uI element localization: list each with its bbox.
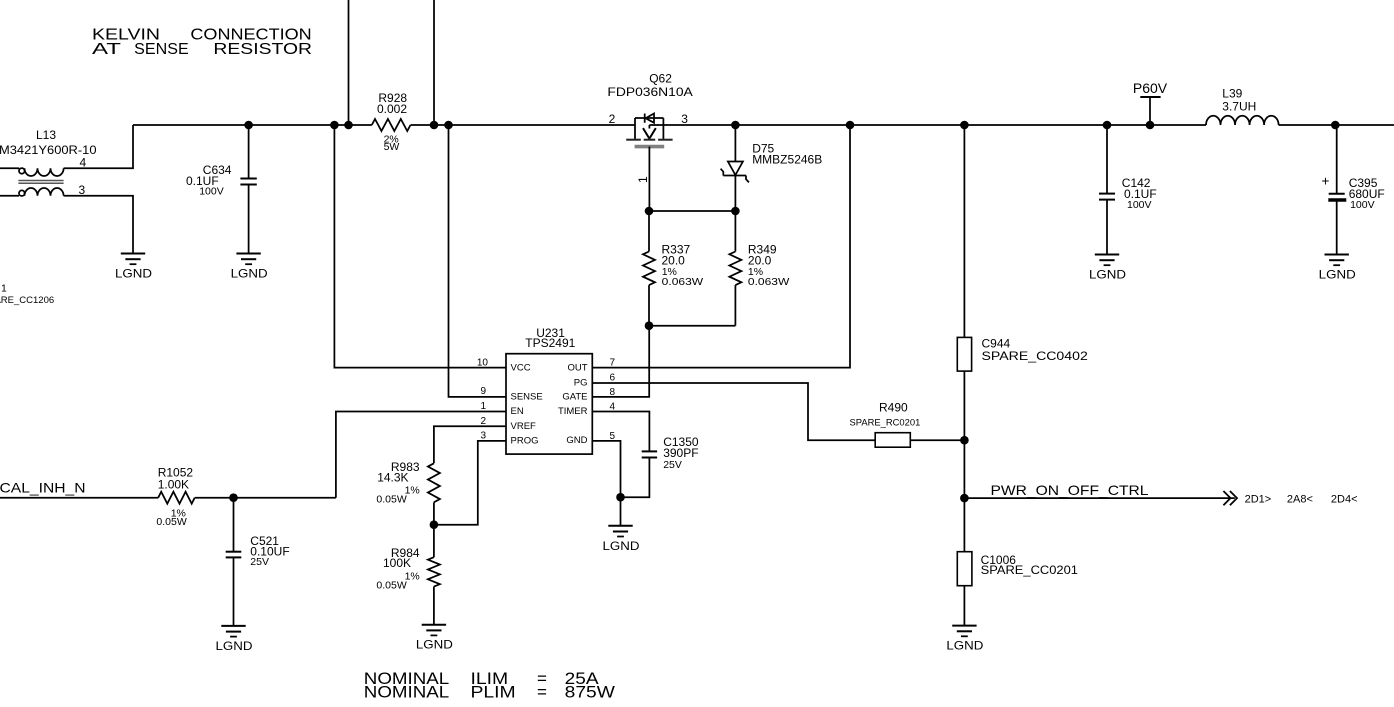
svg-text:SENSE: SENSE: [511, 391, 543, 402]
label R928 value: [377, 91, 407, 153]
svg-text:SPARE_CC0402: SPARE_CC0402: [982, 349, 1089, 363]
ground LGND for R984: [416, 625, 453, 652]
svg-text:CAL_INH_N: CAL_INH_N: [0, 480, 86, 496]
svg-text:TPS2491: TPS2491: [525, 336, 575, 350]
svg-text:Q62: Q62: [649, 71, 672, 85]
svg-text:3: 3: [480, 430, 486, 441]
svg-text:2A8<: 2A8<: [1287, 493, 1313, 505]
wire gate node down to U231 GATE pin: [592, 326, 649, 397]
off-page connector chevrons: [1223, 491, 1237, 505]
resistor R984: [428, 525, 440, 625]
wire VREF to R983: [434, 426, 506, 463]
inductor L13 top winding humps: [25, 168, 64, 176]
svg-text:100V: 100V: [199, 186, 224, 198]
svg-text:0.05W: 0.05W: [376, 580, 406, 592]
wire GND pin to ground: [592, 441, 620, 497]
power flag P60V: [1133, 80, 1168, 125]
svg-text:2: 2: [480, 416, 486, 427]
label C395 value: [1349, 176, 1385, 211]
inductor L13 bottom winding lead: [0, 195, 19, 197]
wire R490 node down to PWR node: [963, 440, 965, 498]
svg-text:25V: 25V: [250, 556, 269, 568]
resistor R928 zigzag: [372, 119, 411, 131]
ground LGND for C1006: [946, 626, 983, 653]
svg-text:LGND: LGND: [1319, 268, 1356, 282]
label L13: [0, 128, 97, 157]
svg-text:390PF: 390PF: [663, 446, 698, 460]
label Q62 FDP036N10A: [607, 71, 692, 99]
resistor R337: [643, 211, 655, 326]
svg-text:3: 3: [681, 112, 688, 126]
wire C944 to R490 node: [963, 371, 965, 440]
svg-text:LGND: LGND: [115, 267, 152, 281]
svg-text:0.05W: 0.05W: [156, 516, 186, 528]
label U231 TPS2491: [525, 326, 575, 350]
svg-text:2D1>: 2D1>: [1245, 493, 1272, 505]
svg-text:PWR_ON_OFF_CTRL: PWR_ON_OFF_CTRL: [991, 482, 1149, 498]
wire top rail left segment: [133, 124, 372, 126]
svg-text:0.002: 0.002: [377, 102, 407, 116]
transistor Q62 body: [626, 114, 672, 147]
svg-text:RESISTOR: RESISTOR: [213, 41, 312, 58]
svg-text:OUT: OUT: [567, 363, 587, 374]
inductor L39 humps: [1206, 116, 1279, 125]
svg-text:2: 2: [609, 112, 616, 126]
svg-text:9: 9: [480, 386, 486, 397]
net CAL_INH_N wire: [0, 497, 158, 499]
svg-text:SPARE_RC0201: SPARE_RC0201: [850, 418, 921, 429]
svg-text:LGND: LGND: [603, 539, 640, 553]
ground LGND for C634: [231, 254, 268, 281]
svg-text:100V: 100V: [1127, 199, 1152, 211]
svg-text:R490: R490: [879, 401, 908, 415]
ground LGND for L13: [115, 254, 152, 281]
IC U231 box: [506, 354, 592, 454]
svg-text:100K: 100K: [383, 556, 411, 570]
svg-text:SPARE_CC0201: SPARE_CC0201: [981, 563, 1079, 577]
svg-text:5W: 5W: [384, 141, 400, 153]
label C634 value: [186, 163, 232, 198]
label D75 MMBZ5246B: [752, 142, 822, 167]
wire PWR node down to C1006: [963, 498, 965, 552]
svg-text:SENSE: SENSE: [134, 41, 189, 58]
wire Q62 gate down to R337 node: [648, 147, 650, 211]
svg-text:14.3K: 14.3K: [377, 471, 408, 485]
resistor R1052 zigzag: [158, 492, 195, 504]
note NOMINAL ILIM PLIM: [364, 669, 615, 702]
capacitor C1006 spare box: [957, 552, 972, 586]
svg-text:FDP036N10A: FDP036N10A: [607, 85, 692, 99]
wire SENSE kelvin riser: [449, 125, 507, 397]
inductor L13 top winding lead: [0, 167, 19, 169]
svg-text:LGND: LGND: [946, 639, 983, 653]
svg-text:GATE: GATE: [562, 391, 587, 402]
svg-text:8: 8: [610, 387, 616, 398]
capacitor C395 polarized: [1328, 125, 1346, 255]
svg-text:1%: 1%: [405, 571, 420, 583]
capacitor C1350: [621, 451, 658, 497]
label sheet refs 2D1 2A8 2D4: [1245, 493, 1358, 505]
ground LGND for C395: [1319, 255, 1356, 282]
wire VCC kelvin riser: [334, 125, 506, 368]
svg-text:3: 3: [79, 183, 86, 197]
svg-text:4: 4: [80, 156, 87, 170]
svg-text:1.00K: 1.00K: [158, 478, 189, 492]
label R984 value: [376, 546, 420, 592]
resistor R349: [729, 211, 741, 326]
svg-text:25V: 25V: [663, 459, 682, 471]
svg-text:EN: EN: [511, 406, 524, 417]
wire off-page up riser B: [433, 0, 435, 125]
ground LGND for U231: [603, 497, 640, 553]
label R490 SPARE_RC0201: [850, 401, 921, 429]
label C944 SPARE_CC0402: [982, 336, 1089, 363]
diode D75 zener: [721, 125, 749, 211]
wire L13 pin4 to rail: [64, 125, 133, 168]
wire L13 pin3 to ground: [64, 196, 133, 254]
label R1052 value: [156, 465, 193, 527]
resistor R490 spare box: [875, 433, 910, 448]
label L39 value: [1222, 86, 1256, 113]
capacitor C944 spare box: [957, 337, 971, 371]
junction dots mid circuit: [229, 207, 969, 529]
ground LGND for C142: [1089, 255, 1126, 282]
svg-text:LGND: LGND: [1089, 268, 1126, 282]
svg-text:3.7UH: 3.7UH: [1222, 100, 1256, 114]
svg-text:0.05W: 0.05W: [376, 493, 406, 505]
wire PROG down to divider node: [434, 441, 506, 525]
capacitor C634: [240, 125, 256, 254]
label C521 value: [250, 534, 289, 568]
wire R337/R349 bottom link: [649, 325, 735, 327]
wire rail right of Q62: [649, 124, 1206, 126]
svg-text:1%: 1%: [405, 484, 420, 496]
svg-text:P60V: P60V: [1133, 80, 1168, 96]
wire rail between R928 and Q62: [411, 124, 636, 126]
svg-text:100V: 100V: [1350, 199, 1375, 211]
svg-text:875W: 875W: [565, 683, 615, 702]
wire R1052 to EN riser: [195, 497, 336, 499]
label R349 value: [748, 242, 790, 288]
svg-text:PROG: PROG: [511, 435, 539, 446]
inductor L13 top winding start loop: [19, 168, 25, 174]
wire off-page up riser A: [348, 0, 350, 125]
svg-text:+: +: [1322, 174, 1330, 189]
wire EN to CAL junction: [336, 412, 506, 498]
svg-text:1: 1: [480, 401, 486, 412]
wire PG to R490: [592, 383, 875, 440]
svg-text:LGND: LGND: [231, 267, 268, 281]
capacitor C521: [226, 498, 242, 626]
wire C1006 to ground: [963, 586, 965, 626]
svg-text:SPARE_CC1206: SPARE_CC1206: [0, 295, 54, 306]
svg-text:0.063W: 0.063W: [748, 276, 790, 288]
svg-text:LGND: LGND: [416, 638, 453, 652]
capacitor C142: [1099, 125, 1115, 255]
label R983 value: [376, 460, 420, 505]
svg-text:GND: GND: [566, 435, 587, 446]
junction dots on rail: [244, 121, 1339, 130]
ground LGND for C521: [216, 626, 253, 653]
wire TIMER to C1350: [592, 412, 649, 452]
wire rail right of L39: [1279, 124, 1394, 126]
svg-text:AT: AT: [92, 41, 121, 58]
svg-text:6: 6: [610, 372, 616, 383]
svg-text:2D4<: 2D4<: [1331, 493, 1358, 505]
svg-text:PG: PG: [574, 377, 588, 388]
title note KELVIN CONNECTION AT SENSE RESISTOR: [92, 27, 312, 58]
net PWR_ON_OFF_CTRL wire: [964, 497, 1234, 499]
svg-text:L39: L39: [1222, 86, 1242, 100]
inductor L13 bottom winding start loop: [19, 190, 25, 196]
label C1006 SPARE_CC0201: [981, 553, 1079, 577]
resistor R983: [428, 463, 440, 524]
capacitor C944 spare column from rail: [963, 125, 965, 337]
svg-text:VCC: VCC: [511, 363, 531, 374]
svg-text:=: =: [537, 683, 547, 702]
svg-text:PLIM: PLIM: [471, 683, 516, 702]
svg-text:TIMER: TIMER: [558, 406, 588, 417]
svg-text:0.063W: 0.063W: [662, 276, 704, 288]
svg-text:NOMINAL: NOMINAL: [364, 683, 449, 702]
label R337 value: [662, 242, 704, 288]
partial spare refdes at left edge: [0, 283, 54, 307]
svg-text:MMBZ5246B: MMBZ5246B: [752, 153, 822, 167]
svg-text:VREF: VREF: [511, 421, 537, 432]
svg-text:LGND: LGND: [216, 639, 253, 653]
svg-text:1: 1: [636, 176, 650, 183]
svg-text:L13: L13: [36, 128, 56, 142]
inductor L13 bottom winding humps: [25, 188, 64, 196]
label C1350 value: [663, 435, 699, 471]
wire node between gate and D75: [649, 210, 735, 212]
inductor L13 core lines: [18, 181, 63, 184]
wire R490 to C944 column: [910, 439, 964, 441]
svg-text:1: 1: [1, 283, 7, 295]
wire OUT up to rail: [592, 125, 850, 368]
label C142 value: [1122, 176, 1157, 211]
